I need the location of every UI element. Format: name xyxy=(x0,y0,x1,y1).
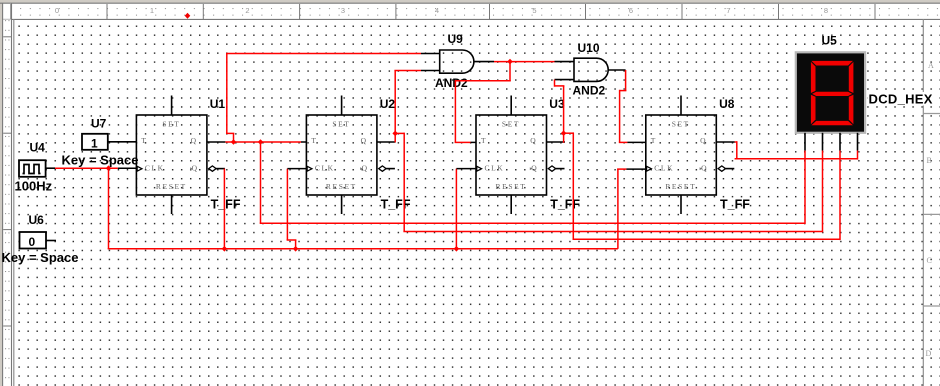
svg-text:U7: U7 xyxy=(91,116,107,130)
svg-text:AND2: AND2 xyxy=(435,76,468,90)
window chrome top edge xyxy=(0,0,940,3)
wire: display pin 1 riser xyxy=(804,151,806,225)
wire: U2 CLK black pin part xyxy=(287,168,306,170)
top ruler strip xyxy=(0,3,940,19)
svg-text:100Hz: 100Hz xyxy=(15,179,53,194)
svg-text:B: B xyxy=(927,156,932,165)
wire: Q1 up-jog to U9 input A xyxy=(233,133,235,142)
wire: Q1 horizontal run to display pin 1 xyxy=(260,222,805,224)
svg-text:T_FF: T_FF xyxy=(381,197,411,211)
wire: U8 T black pin part xyxy=(627,141,645,143)
T flip-flop U2 xyxy=(306,96,395,215)
wire: U1 Q to U2 T (red mid part) xyxy=(225,141,301,143)
window chrome left edge xyxy=(0,0,3,386)
wire: U2 T black pin part xyxy=(301,141,306,143)
wire: Q4 horizontal run under display xyxy=(735,158,858,160)
svg-text:U6: U6 xyxy=(29,213,45,227)
AND gate U10 xyxy=(555,58,626,81)
junction: clock line to bottom clock bus xyxy=(106,165,112,171)
svg-text:7: 7 xyxy=(726,6,730,15)
wire: U3 T black pin part xyxy=(471,141,477,143)
wire: U9 output drop jog to U3 T xyxy=(509,62,511,81)
wire: U2 Q riser to U9 input B xyxy=(394,71,396,143)
wire: bus riser to U2 CLK (lower jog) xyxy=(295,240,297,249)
wire: Q3 drop (vertical) xyxy=(572,132,574,239)
wire: U9 output to U10 input A xyxy=(494,61,555,63)
svg-text:8: 8 xyxy=(824,6,828,15)
junction: ~Q drop at bus xyxy=(222,246,228,252)
wire: U4 to U1 CLK (black pin part) xyxy=(118,167,136,169)
svg-text:C: C xyxy=(927,256,932,265)
T flip-flop U1 xyxy=(136,96,225,215)
svg-text:DCD_HEX: DCD_HEX xyxy=(869,92,933,107)
wire: U8 CLK black pin part xyxy=(626,168,645,170)
switch U7 (closed, "1") xyxy=(82,134,136,151)
svg-text:A: A xyxy=(928,61,934,70)
svg-text:U9: U9 xyxy=(448,32,464,46)
left ruler strip xyxy=(3,3,12,386)
svg-text:T_FF: T_FF xyxy=(720,197,750,211)
wire: Q2 horizontal run to display pin 2 xyxy=(403,231,822,233)
wire: Q3 horizontal run to display pin 3 xyxy=(573,238,841,240)
wire: U8 Q jog down xyxy=(735,141,737,143)
junction: Q1 branch up to U9 xyxy=(231,139,237,145)
svg-text:U8: U8 xyxy=(719,97,735,111)
wire: U10 output jog down to U8 T xyxy=(625,70,627,91)
wire: display pin 3 riser xyxy=(839,151,841,241)
wire: clock bus left vertical xyxy=(108,168,110,249)
left ruler major ticks xyxy=(3,37,11,326)
wire: Q2 jog right xyxy=(395,132,404,134)
wire: U4 output to U1 CLK (red part) xyxy=(55,167,118,169)
svg-text:1: 1 xyxy=(91,136,98,150)
svg-text:2: 2 xyxy=(245,6,249,15)
svg-text:6: 6 xyxy=(629,6,633,15)
seven-segment display U5 xyxy=(796,52,865,150)
svg-text:3: 3 xyxy=(341,6,345,15)
wire: Q1 drop toward display (vertical) xyxy=(260,142,262,223)
junction: U3 CLK riser at bus xyxy=(454,246,460,252)
AND gate U9 xyxy=(421,50,494,73)
svg-text:Key = Space: Key = Space xyxy=(2,250,79,265)
top ruler major ticks xyxy=(11,4,875,19)
svg-text:U3: U3 xyxy=(549,97,565,111)
svg-text:1: 1 xyxy=(150,6,154,15)
wire: Q2 drop (vertical) xyxy=(403,133,405,232)
wire: U3 Q riser to U10 input B xyxy=(563,86,565,143)
wire: bus riser to U3 CLK xyxy=(455,169,457,249)
sheet zone letters xyxy=(926,61,935,358)
wire: bottom clock bus horizontal xyxy=(108,248,618,250)
clock source U4 100Hz xyxy=(19,160,55,177)
svg-text:U5: U5 xyxy=(822,33,838,47)
wire: display pin 2 riser xyxy=(822,151,824,233)
svg-text:T_FF: T_FF xyxy=(550,197,580,211)
T flip-flop U3 xyxy=(476,96,565,215)
wire: Q3 jog right xyxy=(564,132,574,134)
svg-text:AND2: AND2 xyxy=(573,84,606,98)
wire: U1 ~Q drop to bus xyxy=(223,169,225,249)
junction: U9 output branch to U3 T xyxy=(507,59,513,65)
svg-text:4: 4 xyxy=(435,6,439,15)
sheet border zone dividers xyxy=(923,114,940,307)
T flip-flop U8 xyxy=(646,96,735,215)
top ruler numbers xyxy=(55,6,828,15)
svg-text:Key = Space: Key = Space xyxy=(62,153,139,168)
svg-text:U1: U1 xyxy=(210,97,226,111)
svg-text:0: 0 xyxy=(29,235,36,249)
svg-text:U10: U10 xyxy=(578,41,600,55)
sheet border right xyxy=(922,19,924,386)
wire: display pin 4 riser xyxy=(857,151,859,160)
wire: bus right end riser to U8 CLK xyxy=(617,169,619,249)
junction: Q1 branch down to display xyxy=(258,139,264,145)
junction: Q2 branch to display xyxy=(392,131,398,137)
ruler cursor red dot xyxy=(185,13,191,19)
svg-text:5: 5 xyxy=(532,6,536,15)
svg-text:0: 0 xyxy=(55,6,59,15)
wire: U3 CLK black pin part xyxy=(456,168,476,170)
svg-text:U4: U4 xyxy=(30,141,46,155)
svg-text:T_FF: T_FF xyxy=(211,197,241,211)
sheet border left xyxy=(13,19,15,386)
svg-text:D: D xyxy=(926,349,932,358)
type label DCD_HEX of U5 xyxy=(868,92,935,107)
junction: Q3 branch to display xyxy=(561,130,567,136)
junction: U2 CLK riser at bus xyxy=(293,246,299,252)
svg-text:U2: U2 xyxy=(380,97,396,111)
switch U6 (open, "0") xyxy=(20,232,57,249)
